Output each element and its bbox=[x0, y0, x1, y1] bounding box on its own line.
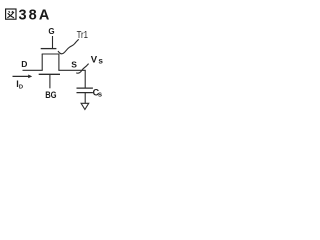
svg-text:S: S bbox=[71, 60, 77, 70]
svg-text:D: D bbox=[21, 59, 27, 69]
svg-text:38A: 38A bbox=[19, 7, 52, 23]
svg-text:s: s bbox=[98, 57, 103, 66]
svg-text:G: G bbox=[48, 27, 54, 36]
svg-text:V: V bbox=[91, 55, 98, 66]
svg-text:s: s bbox=[98, 89, 102, 98]
svg-text:D: D bbox=[19, 84, 23, 90]
svg-text:BG: BG bbox=[45, 90, 56, 100]
svg-text:Tr1: Tr1 bbox=[77, 29, 89, 41]
